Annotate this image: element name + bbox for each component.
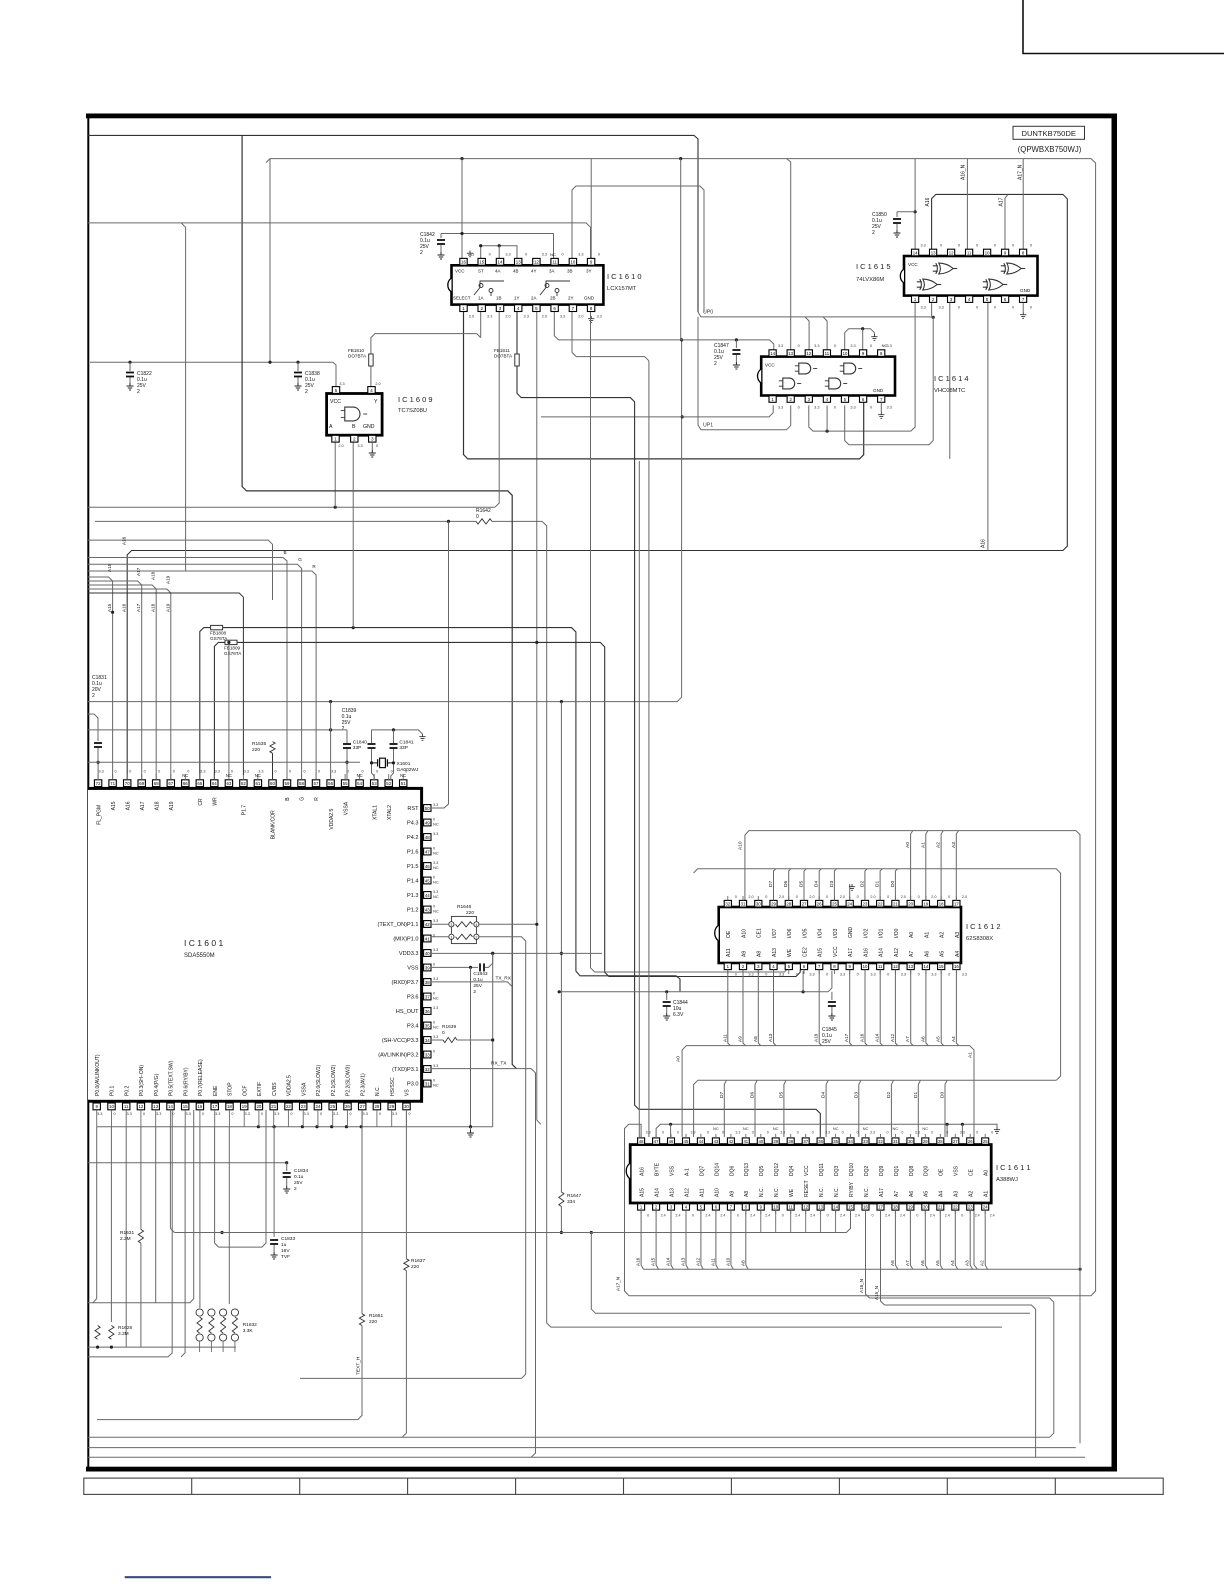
svg-text:20: 20 xyxy=(923,1205,928,1210)
svg-text:D3: D3 xyxy=(829,881,835,887)
svg-text:71: 71 xyxy=(110,781,115,786)
svg-text:13: 13 xyxy=(931,250,936,255)
svg-text:14: 14 xyxy=(833,1205,838,1210)
svg-text:23: 23 xyxy=(301,1104,306,1109)
svg-text:18: 18 xyxy=(893,1205,898,1210)
svg-text:(SH-VCC)P3.3: (SH-VCC)P3.3 xyxy=(382,1038,419,1044)
svg-text:A0: A0 xyxy=(909,932,915,938)
svg-text:0: 0 xyxy=(976,1131,978,1135)
svg-text:3: 3 xyxy=(450,923,452,927)
svg-text:A6: A6 xyxy=(920,1260,925,1266)
svg-text:R1639: R1639 xyxy=(442,1024,456,1030)
svg-text:2.4: 2.4 xyxy=(930,1214,935,1218)
svg-text:2.4: 2.4 xyxy=(900,1214,905,1218)
svg-text:A7: A7 xyxy=(905,1036,910,1042)
svg-text:66: 66 xyxy=(183,781,188,786)
svg-text:DQ13: DQ13 xyxy=(744,1163,750,1176)
svg-text:55: 55 xyxy=(343,781,348,786)
svg-text:NC: NC xyxy=(433,1025,439,1030)
svg-text:2.0: 2.0 xyxy=(962,895,967,899)
svg-text:GND: GND xyxy=(584,296,595,301)
svg-text:3.3: 3.3 xyxy=(778,406,783,410)
svg-text:0: 0 xyxy=(261,1112,263,1116)
svg-text:DQ8: DQ8 xyxy=(909,1166,915,1177)
svg-text:A8: A8 xyxy=(757,951,763,957)
svg-text:DQ10: DQ10 xyxy=(849,1163,855,1176)
svg-text:NC: NC xyxy=(773,1126,779,1131)
svg-text:GND: GND xyxy=(873,388,884,393)
svg-text:15: 15 xyxy=(848,1205,853,1210)
svg-text:DQ9: DQ9 xyxy=(879,1166,885,1177)
svg-text:62S8308X: 62S8308X xyxy=(966,936,993,942)
svg-text:WE: WE xyxy=(787,948,793,957)
svg-text:34: 34 xyxy=(425,1038,430,1043)
svg-text:2.4: 2.4 xyxy=(975,1214,980,1218)
svg-text:(RXD)P3.7: (RXD)P3.7 xyxy=(391,980,418,986)
svg-text:0: 0 xyxy=(765,895,767,899)
svg-text:51: 51 xyxy=(401,781,406,786)
svg-text:3.3: 3.3 xyxy=(825,1131,830,1135)
svg-text:0: 0 xyxy=(158,770,160,774)
svg-text:12: 12 xyxy=(806,351,811,356)
svg-text:2.4: 2.4 xyxy=(750,1214,755,1218)
svg-text:27: 27 xyxy=(802,902,807,907)
svg-text:P1.4: P1.4 xyxy=(407,879,419,885)
svg-text:0: 0 xyxy=(349,1112,351,1116)
svg-text:N.C.: N.C. xyxy=(819,1187,825,1197)
svg-text:VSSA: VSSA xyxy=(301,1082,307,1096)
svg-text:0: 0 xyxy=(834,344,836,348)
svg-text:C1841: C1841 xyxy=(399,740,413,746)
svg-text:A18: A18 xyxy=(151,571,156,580)
svg-text:3.3: 3.3 xyxy=(920,306,925,310)
svg-text:R1646: R1646 xyxy=(457,904,471,910)
svg-text:17: 17 xyxy=(878,1205,883,1210)
svg-text:VSS: VSS xyxy=(407,966,418,972)
svg-text:41: 41 xyxy=(743,1139,748,1144)
svg-text:54: 54 xyxy=(357,781,362,786)
svg-text:A4: A4 xyxy=(939,1191,945,1197)
svg-text:10: 10 xyxy=(773,1205,778,1210)
svg-text:0: 0 xyxy=(916,1214,918,1218)
svg-text:11: 11 xyxy=(124,1104,129,1109)
svg-text:3.3: 3.3 xyxy=(200,770,205,774)
svg-text:43: 43 xyxy=(714,1139,719,1144)
svg-text:FB1810: FB1810 xyxy=(348,348,365,353)
svg-text:DQ7: DQ7 xyxy=(699,1166,705,1177)
svg-text:A15_N: A15_N xyxy=(874,1286,879,1300)
svg-text:A15: A15 xyxy=(818,948,824,957)
svg-text:I C 1 6 1 4: I C 1 6 1 4 xyxy=(934,374,969,383)
svg-text:0: 0 xyxy=(918,895,920,899)
svg-text:NC: NC xyxy=(433,865,439,870)
svg-text:220: 220 xyxy=(411,1264,419,1270)
svg-text:0: 0 xyxy=(887,973,889,977)
svg-text:0: 0 xyxy=(870,406,872,410)
svg-text:A19: A19 xyxy=(165,603,170,612)
svg-text:A7: A7 xyxy=(894,1191,900,1197)
svg-text:R: R xyxy=(314,797,320,801)
svg-text:0: 0 xyxy=(129,770,131,774)
svg-text:D2: D2 xyxy=(886,1092,892,1098)
svg-text:A0: A0 xyxy=(984,1170,990,1176)
svg-text:19: 19 xyxy=(908,1205,913,1210)
svg-text:A15: A15 xyxy=(640,1188,646,1197)
svg-text:2: 2 xyxy=(420,250,423,256)
svg-text:A4: A4 xyxy=(951,1036,956,1042)
svg-text:NC: NC xyxy=(882,343,888,348)
svg-text:A16_N: A16_N xyxy=(961,164,967,180)
svg-text:NC: NC xyxy=(713,1126,719,1131)
svg-text:I/O5: I/O5 xyxy=(802,928,808,938)
svg-text:0: 0 xyxy=(202,1112,204,1116)
svg-text:3.3: 3.3 xyxy=(98,770,103,774)
svg-text:A11: A11 xyxy=(699,1188,705,1197)
svg-text:NC: NC xyxy=(433,894,439,899)
svg-text:VCC: VCC xyxy=(804,1165,810,1176)
svg-text:3.3: 3.3 xyxy=(931,973,936,977)
svg-text:220: 220 xyxy=(252,747,260,753)
svg-text:3.3: 3.3 xyxy=(433,1035,438,1039)
svg-text:3.3: 3.3 xyxy=(433,919,438,923)
svg-text:(QPWBXB750WJ): (QPWBXB750WJ) xyxy=(1018,145,1082,154)
svg-text:2.0: 2.0 xyxy=(901,895,906,899)
svg-text:3.3: 3.3 xyxy=(596,315,601,319)
svg-text:3.3: 3.3 xyxy=(920,244,925,248)
svg-text:3.3: 3.3 xyxy=(339,382,344,386)
svg-text:0: 0 xyxy=(976,306,978,310)
svg-text:A3: A3 xyxy=(955,932,961,938)
svg-text:0: 0 xyxy=(476,514,479,520)
svg-text:25: 25 xyxy=(832,902,837,907)
svg-text:4A: 4A xyxy=(495,269,501,274)
svg-text:A5: A5 xyxy=(936,1036,941,1042)
svg-text:RST: RST xyxy=(407,806,419,812)
svg-text:VS: VS xyxy=(405,1089,411,1096)
svg-text:0: 0 xyxy=(752,1131,754,1135)
svg-text:38: 38 xyxy=(788,1139,793,1144)
svg-text:29: 29 xyxy=(923,1139,928,1144)
svg-text:0: 0 xyxy=(144,770,146,774)
svg-text:B: B xyxy=(283,550,286,555)
svg-text:A16: A16 xyxy=(122,603,127,612)
svg-text:3.3: 3.3 xyxy=(244,770,249,774)
svg-text:0: 0 xyxy=(433,963,435,967)
svg-text:3.3: 3.3 xyxy=(691,1131,696,1135)
svg-text:30: 30 xyxy=(404,1104,409,1109)
svg-text:I/O7: I/O7 xyxy=(772,928,778,938)
svg-text:0: 0 xyxy=(946,1131,948,1135)
svg-text:R1637: R1637 xyxy=(411,1258,425,1264)
svg-text:G: G xyxy=(298,557,302,562)
svg-text:3.3: 3.3 xyxy=(433,1064,438,1068)
svg-text:59: 59 xyxy=(285,781,290,786)
svg-text:47: 47 xyxy=(425,849,430,854)
svg-text:3.3: 3.3 xyxy=(433,803,438,807)
svg-text:72: 72 xyxy=(96,781,101,786)
svg-text:11: 11 xyxy=(825,351,830,356)
svg-text:33: 33 xyxy=(425,1052,430,1057)
svg-text:P0.7(RELEASE): P0.7(RELEASE) xyxy=(198,1059,204,1096)
svg-text:3.3: 3.3 xyxy=(809,973,814,977)
svg-text:A16: A16 xyxy=(122,536,127,545)
svg-text:A0: A0 xyxy=(905,842,911,848)
svg-text:NC: NC xyxy=(433,1083,439,1088)
svg-text:R1628: R1628 xyxy=(118,1325,132,1331)
svg-text:A2: A2 xyxy=(940,932,946,938)
svg-text:63: 63 xyxy=(226,781,231,786)
svg-text:A: A xyxy=(329,424,333,430)
svg-text:3B: 3B xyxy=(567,269,573,274)
svg-text:3.3: 3.3 xyxy=(469,253,474,257)
svg-text:2.4: 2.4 xyxy=(945,1214,950,1218)
svg-text:A1: A1 xyxy=(924,932,930,938)
svg-text:53: 53 xyxy=(372,781,377,786)
svg-text:0: 0 xyxy=(677,1131,679,1135)
svg-text:42: 42 xyxy=(729,1139,734,1144)
svg-text:A9: A9 xyxy=(738,1036,743,1042)
svg-text:3.3: 3.3 xyxy=(274,1112,279,1116)
svg-text:VCC: VCC xyxy=(833,946,839,957)
svg-text:A15: A15 xyxy=(111,801,117,810)
svg-text:CE: CE xyxy=(969,1168,975,1176)
svg-text:UP1: UP1 xyxy=(703,423,713,429)
svg-text:NC: NC xyxy=(833,1126,839,1131)
svg-text:RESET: RESET xyxy=(804,1180,810,1197)
svg-text:2.4: 2.4 xyxy=(855,1214,860,1218)
svg-text:0: 0 xyxy=(1012,306,1014,310)
svg-text:46: 46 xyxy=(425,864,430,869)
svg-text:3.3: 3.3 xyxy=(814,406,819,410)
svg-text:0: 0 xyxy=(991,1131,993,1135)
svg-text:40: 40 xyxy=(758,1139,763,1144)
svg-text:0: 0 xyxy=(692,1214,694,1218)
svg-text:31: 31 xyxy=(893,1139,898,1144)
svg-text:I/O2: I/O2 xyxy=(863,928,869,938)
svg-text:2.0: 2.0 xyxy=(840,895,845,899)
svg-text:32: 32 xyxy=(878,1139,883,1144)
svg-text:3.3: 3.3 xyxy=(840,973,845,977)
svg-text:2.0: 2.0 xyxy=(809,895,814,899)
svg-text:2.0: 2.0 xyxy=(338,444,343,448)
svg-text:2: 2 xyxy=(714,361,717,367)
svg-text:39: 39 xyxy=(425,965,430,970)
svg-text:28: 28 xyxy=(374,1104,379,1109)
svg-text:3.3: 3.3 xyxy=(97,1112,102,1116)
svg-text:VHC08MTC: VHC08MTC xyxy=(934,388,965,394)
svg-text:TVF: TVF xyxy=(281,1254,290,1260)
svg-text:DQ5: DQ5 xyxy=(759,1166,765,1177)
svg-text:26: 26 xyxy=(968,1139,973,1144)
svg-text:0: 0 xyxy=(958,244,960,248)
svg-text:3.3: 3.3 xyxy=(778,344,783,348)
svg-text:0: 0 xyxy=(958,306,960,310)
svg-text:19: 19 xyxy=(924,902,929,907)
svg-text:Y: Y xyxy=(374,399,378,405)
svg-text:P0.6(RY/BY): P0.6(RY/BY) xyxy=(183,1067,189,1096)
svg-text:0: 0 xyxy=(976,244,978,248)
svg-text:4Y: 4Y xyxy=(531,269,537,274)
svg-text:3.3: 3.3 xyxy=(127,1112,132,1116)
svg-text:A17_N: A17_N xyxy=(616,1277,621,1291)
svg-text:P1.6: P1.6 xyxy=(407,850,419,856)
svg-text:64: 64 xyxy=(212,781,217,786)
svg-text:2.0: 2.0 xyxy=(375,382,380,386)
svg-text:56: 56 xyxy=(328,781,333,786)
svg-text:BYTE: BYTE xyxy=(655,1162,661,1176)
svg-text:(AVLINKIN)P3.2: (AVLINKIN)P3.2 xyxy=(378,1053,418,1059)
svg-text:NC: NC xyxy=(550,252,556,257)
svg-text:0: 0 xyxy=(994,306,996,310)
svg-text:A2: A2 xyxy=(936,842,942,848)
svg-text:49: 49 xyxy=(425,820,430,825)
svg-text:0: 0 xyxy=(525,253,527,257)
svg-text:2: 2 xyxy=(475,935,477,939)
svg-text:P0.3(SH−ON): P0.3(SH−ON) xyxy=(139,1065,145,1096)
svg-text:35: 35 xyxy=(833,1139,838,1144)
svg-text:NC: NC xyxy=(922,1126,928,1131)
svg-text:1u: 1u xyxy=(281,1242,287,1248)
svg-text:A13: A13 xyxy=(681,1257,686,1266)
svg-text:0: 0 xyxy=(827,1214,829,1218)
svg-text:A2: A2 xyxy=(969,1191,975,1197)
svg-text:A5: A5 xyxy=(940,951,946,957)
svg-text:25: 25 xyxy=(983,1139,988,1144)
svg-text:0: 0 xyxy=(918,973,920,977)
svg-text:3.3: 3.3 xyxy=(304,1112,309,1116)
svg-text:4B: 4B xyxy=(513,269,519,274)
svg-text:NC: NC xyxy=(433,822,439,827)
svg-text:3.3: 3.3 xyxy=(542,253,547,257)
svg-text:3.3: 3.3 xyxy=(901,973,906,977)
svg-text:0: 0 xyxy=(489,253,491,257)
svg-text:3.3: 3.3 xyxy=(780,1131,785,1135)
svg-text:NC: NC xyxy=(893,1126,899,1131)
svg-text:I C 1 6 1 5: I C 1 6 1 5 xyxy=(856,262,891,271)
svg-text:0: 0 xyxy=(798,406,800,410)
svg-text:44: 44 xyxy=(425,893,430,898)
svg-text:SDA5550M: SDA5550M xyxy=(184,953,215,959)
svg-text:A17: A17 xyxy=(998,197,1004,206)
svg-text:13: 13 xyxy=(818,1205,823,1210)
svg-text:R1632: R1632 xyxy=(243,1322,257,1328)
svg-text:27: 27 xyxy=(360,1104,365,1109)
svg-text:24: 24 xyxy=(983,1205,988,1210)
svg-text:21: 21 xyxy=(893,902,898,907)
svg-text:D1: D1 xyxy=(913,1092,919,1098)
svg-text:6.3V: 6.3V xyxy=(673,1012,684,1018)
svg-text:15: 15 xyxy=(183,1104,188,1109)
svg-text:0: 0 xyxy=(826,895,828,899)
svg-text:0: 0 xyxy=(812,1131,814,1135)
svg-text:A16: A16 xyxy=(863,948,869,957)
svg-text:2.0: 2.0 xyxy=(779,895,784,899)
svg-text:17: 17 xyxy=(954,902,959,907)
svg-text:P2.1(SLOW2): P2.1(SLOW2) xyxy=(331,1065,337,1096)
svg-text:A18: A18 xyxy=(154,801,160,810)
svg-text:220: 220 xyxy=(369,1319,377,1325)
svg-text:A10: A10 xyxy=(738,841,744,850)
svg-text:A1: A1 xyxy=(968,1052,974,1058)
svg-text:A16: A16 xyxy=(125,801,131,810)
svg-text:I C 1 6 0 9: I C 1 6 0 9 xyxy=(398,395,433,404)
svg-text:0: 0 xyxy=(662,1131,664,1135)
svg-text:0: 0 xyxy=(408,1112,410,1116)
svg-text:D3: D3 xyxy=(853,1092,859,1098)
svg-text:0.1u: 0.1u xyxy=(294,1174,304,1180)
svg-text:RX_TX: RX_TX xyxy=(491,1061,507,1067)
svg-text:P4.3: P4.3 xyxy=(407,821,419,827)
svg-text:A16: A16 xyxy=(981,539,987,548)
svg-text:GND: GND xyxy=(363,424,375,430)
svg-text:25V: 25V xyxy=(822,1039,832,1045)
svg-text:0: 0 xyxy=(1030,306,1032,310)
svg-text:A14: A14 xyxy=(879,948,885,957)
svg-text:3.3: 3.3 xyxy=(850,344,855,348)
svg-text:24: 24 xyxy=(847,902,852,907)
svg-text:74LVX86M: 74LVX86M xyxy=(856,277,884,283)
svg-text:A8: A8 xyxy=(744,1191,750,1197)
svg-text:14: 14 xyxy=(913,250,918,255)
svg-text:P3.6: P3.6 xyxy=(407,995,419,1001)
svg-text:B: B xyxy=(352,424,356,430)
svg-text:A1: A1 xyxy=(920,842,926,848)
svg-text:R1647: R1647 xyxy=(567,1193,581,1199)
svg-text:13: 13 xyxy=(788,351,793,356)
svg-text:42: 42 xyxy=(425,922,430,927)
svg-text:G: G xyxy=(300,797,306,801)
svg-text:I/O6: I/O6 xyxy=(787,928,793,938)
svg-text:3.3: 3.3 xyxy=(814,344,819,348)
svg-text:CVBS: CVBS xyxy=(272,1082,278,1096)
svg-text:GA002WJ: GA002WJ xyxy=(397,767,419,773)
svg-text:37: 37 xyxy=(425,994,430,999)
svg-text:0: 0 xyxy=(948,895,950,899)
svg-text:0: 0 xyxy=(231,1112,233,1116)
svg-text:NC: NC xyxy=(863,1126,869,1131)
svg-text:13: 13 xyxy=(516,260,521,265)
svg-text:36: 36 xyxy=(818,1139,823,1144)
svg-text:2.4: 2.4 xyxy=(661,1214,666,1218)
svg-text:57: 57 xyxy=(314,781,319,786)
svg-text:D2: D2 xyxy=(859,881,865,887)
svg-text:2.0: 2.0 xyxy=(578,315,583,319)
svg-text:3.3: 3.3 xyxy=(392,1112,397,1116)
svg-text:0: 0 xyxy=(887,1131,889,1135)
svg-text:12: 12 xyxy=(893,964,898,969)
svg-text:29: 29 xyxy=(389,1104,394,1109)
svg-text:0: 0 xyxy=(173,770,175,774)
svg-text:17: 17 xyxy=(212,1104,217,1109)
svg-text:2.4: 2.4 xyxy=(720,1214,725,1218)
svg-text:3.3: 3.3 xyxy=(331,770,336,774)
svg-text:0: 0 xyxy=(796,895,798,899)
svg-text:20: 20 xyxy=(908,902,913,907)
svg-text:A12: A12 xyxy=(894,948,900,957)
svg-text:33P: 33P xyxy=(399,745,408,751)
svg-text:A16: A16 xyxy=(640,1167,646,1176)
svg-text:P2.2(SLOW3): P2.2(SLOW3) xyxy=(346,1065,352,1096)
svg-text:67: 67 xyxy=(168,781,173,786)
svg-text:D0: D0 xyxy=(890,881,896,887)
svg-text:0: 0 xyxy=(767,1131,769,1135)
svg-text:NC: NC xyxy=(433,851,439,856)
svg-text:52: 52 xyxy=(386,781,391,786)
svg-text:1Y: 1Y xyxy=(514,296,520,301)
svg-text:N.C.: N.C. xyxy=(864,1187,870,1197)
svg-text:15: 15 xyxy=(939,964,944,969)
svg-text:I/O3: I/O3 xyxy=(833,928,839,938)
